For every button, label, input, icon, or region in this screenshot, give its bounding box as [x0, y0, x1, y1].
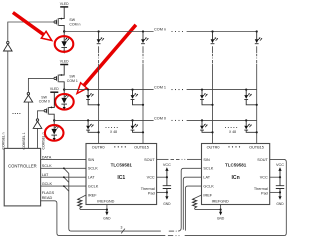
pin IREFGND IC1 stub: [106, 205, 108, 210]
svg-text:X 48: X 48: [229, 130, 236, 134]
wire R2 to IREFGND: [195, 208, 221, 210]
wire COMSEL n input: [7, 51, 9, 148]
resistor R2 (IREF of ICn): [193, 198, 197, 208]
pin labels IC1 left: [88, 158, 99, 198]
wire GCLK to IC1: [41, 185, 86, 187]
wire row COM 0 right segment: [187, 119, 257, 121]
label X 48 right with dotted line: [225, 127, 237, 128]
controller box: [4, 148, 40, 206]
wire ICn SOUT return loop: [185, 159, 287, 235]
power VLED rail 1 bar: [60, 6, 68, 8]
svg-text:OUTB15: OUTB15: [249, 145, 264, 149]
pin labels ICn right: [254, 158, 269, 196]
svg-text:3: 3: [121, 225, 123, 229]
wire IC1 IREF to resistor: [80, 195, 86, 198]
wire IC1 SOUT to ICn SIN (dashed daisy chain): [157, 158, 169, 160]
svg-text:LAT: LAT: [88, 176, 95, 180]
wire row COM 0 left segment: [54, 119, 153, 121]
power VCC column for ICn (arrow, cap C2, gnd): [276, 163, 284, 206]
power VCC column for IC1 (arrow, cap C1, gnd): [163, 163, 171, 206]
svg-text:FLAGS: FLAGS: [42, 191, 55, 195]
svg-text:COMSEL n: COMSEL n: [2, 132, 6, 149]
transistor Q2 SW COM 1 (PMOS): [54, 74, 64, 90]
svg-text:GCLK: GCLK: [42, 182, 53, 186]
svg-text:Pad: Pad: [148, 191, 155, 195]
diode D2 highlighted LED on COM 1: [61, 90, 69, 110]
svg-text:GCLK: GCLK: [203, 185, 214, 189]
diode D1 highlighted LED on COM n: [61, 32, 69, 54]
svg-text:GCLK: GCLK: [88, 185, 99, 189]
wire row COM 1 ellipsis: [171, 89, 183, 90]
wire IC1 VCC pin to decoupling: [157, 176, 167, 178]
ground GND below ICn IREFGND: [217, 210, 225, 221]
wire DATA to SIN: [41, 158, 86, 160]
node IREFGND IC1 junction: [106, 209, 108, 211]
svg-text:IREFGND: IREFGND: [212, 200, 229, 204]
ICn box: [202, 144, 270, 205]
svg-text:COM 0: COM 0: [154, 117, 166, 121]
svg-text:OUTR0: OUTR0: [92, 145, 105, 149]
annotation red circle 3: [45, 125, 64, 141]
wire VLED2 to Q2 source: [59, 65, 64, 75]
svg-text:SIN: SIN: [203, 158, 210, 162]
svg-text:IREF: IREF: [203, 193, 212, 197]
node COM n drain junction: [63, 30, 65, 32]
wire return bus dash-dot gap: [168, 235, 173, 237]
svg-text:Pad: Pad: [261, 191, 268, 195]
svg-text:ICn: ICn: [231, 175, 239, 181]
wire SCLK to IC1: [41, 167, 86, 169]
ground GND below IC1 IREFGND: [103, 210, 111, 221]
wire LAT to IC1: [41, 176, 86, 178]
svg-text:SCLK: SCLK: [42, 164, 52, 168]
wire row COM n right segment: [187, 31, 257, 33]
svg-text:IC1: IC1: [117, 175, 125, 181]
svg-text:VLED: VLED: [60, 59, 69, 63]
svg-text:TLC59581: TLC59581: [111, 162, 133, 167]
svg-text:IREFGND: IREFGND: [97, 200, 114, 204]
wire row COM n ellipsis: [171, 31, 183, 32]
svg-text:DATA: DATA: [42, 155, 52, 159]
svg-text:COMSEL 1: COMSEL 1: [22, 132, 26, 149]
wire U1 output to Q1 gate: [8, 22, 54, 41]
LED matrix row 0 (4 LEDs with jog to column): [86, 119, 100, 133]
power VLED rail 3 bar: [50, 91, 58, 93]
inverter U2 (COMSEL 1 buffer): [24, 93, 33, 103]
wire row COM 0 ellipsis: [171, 120, 183, 121]
svg-text:LAT: LAT: [203, 176, 210, 180]
pin labels ICn left: [203, 158, 214, 198]
wire VLED1 to Q1 source: [59, 8, 64, 19]
svg-text:SCLK: SCLK: [203, 167, 213, 171]
svg-text:X 48: X 48: [110, 130, 117, 134]
wire clock bus dash-dot continuation: [169, 230, 174, 232]
svg-text:TLC59581: TLC59581: [225, 162, 247, 167]
wire row COM 1 right segment: [187, 89, 257, 91]
svg-text:SOUT: SOUT: [257, 158, 268, 162]
wire VLED3 to Q3 source: [49, 93, 54, 108]
column OUTB15 of IC1 (x=143): [143, 46, 144, 143]
wire U3 output to Q3 gate: [38, 111, 45, 119]
svg-text:SIN: SIN: [88, 158, 95, 162]
svg-text:READ: READ: [42, 196, 53, 200]
inverter U3 (COMSEL 0 buffer): [33, 119, 42, 129]
svg-text:VCC: VCC: [260, 176, 268, 180]
wire clock bus rise to ICn SCLK: [178, 168, 201, 231]
bus width marker 3: [121, 229, 125, 234]
svg-text:OUTR0: OUTR0: [207, 145, 220, 149]
pin IREFGND ICn stub: [220, 205, 222, 210]
wire row COM n left segment: [64, 31, 153, 33]
node COM 0 drain junction: [53, 119, 55, 121]
annotation red circle 2: [55, 94, 74, 110]
svg-text:COM n: COM n: [154, 28, 166, 32]
svg-text:IREF: IREF: [88, 193, 97, 197]
inverter U1 (COMSEL n buffer): [4, 41, 13, 51]
wire COMSEL 0 input: [37, 128, 39, 148]
wire SCLK bus tap diagonal: [64, 168, 69, 173]
svg-text:CONTROLLER: CONTROLLER: [8, 164, 37, 169]
svg-text:VLED: VLED: [50, 87, 59, 91]
transistor Q3 SW COM 0 (PMOS): [44, 107, 54, 121]
column OUTR0 of ICn (x=212.5): [212, 46, 213, 143]
diode D3 highlighted LED on COM 0: [51, 120, 59, 141]
annotation red arrow 2: [77, 25, 136, 94]
wire R1 to IREFGND: [80, 208, 107, 210]
column OUTR0 of IC1 (x=98.6): [98, 46, 99, 143]
annotation red arrow 1: [13, 13, 52, 41]
svg-text:VCC: VCC: [147, 176, 155, 180]
svg-text:GND: GND: [163, 202, 171, 206]
annotation red circle 1: [55, 36, 74, 52]
svg-text:LAT: LAT: [42, 173, 49, 177]
svg-text:COM 1: COM 1: [67, 79, 78, 83]
wire row COM 1 left segment: [64, 89, 153, 91]
node ellipsis dots between COMSEL lines: [12, 113, 20, 114]
LED matrix row n (4 LEDs on columns): [97, 30, 104, 43]
wire bus rise to ICn GCLK: [185, 186, 201, 231]
wire bus rise to ICn LAT: [183, 177, 201, 230]
pin labels IC1 right: [141, 158, 156, 196]
power VLED rail 2 bar: [60, 64, 68, 66]
wire ICn thermal pad to gnd: [270, 191, 280, 193]
IC1 box: [86, 144, 157, 205]
pin dots IC1 top: [114, 146, 126, 147]
svg-text:COM n: COM n: [69, 22, 80, 26]
svg-text:COM 1: COM 1: [154, 86, 166, 90]
column OUTB15 of ICn (x=256.7): [256, 46, 257, 143]
resistor R1 (IREF of IC1): [78, 198, 82, 208]
transistor Q1 SW COM n (PMOS): [54, 18, 64, 32]
wire IC1 thermal pad to gnd: [157, 191, 167, 193]
svg-text:SOUT: SOUT: [144, 158, 155, 162]
wire COMSEL 1 input: [27, 102, 29, 148]
label X 48 left with dotted line: [106, 127, 118, 128]
svg-text:OUTB15: OUTB15: [134, 145, 149, 149]
wire LAT bus tap diagonal: [64, 177, 69, 182]
LED matrix row 1 (4 LEDs with jog to column): [86, 89, 100, 106]
svg-text:VCC: VCC: [163, 163, 171, 167]
wire ICn VCC pin to decoupling: [270, 176, 280, 178]
node IREFGND ICn junction: [220, 209, 222, 211]
node COM 1 drain junction: [63, 88, 65, 90]
svg-text:COM 0: COM 0: [39, 99, 50, 103]
svg-text:GND: GND: [103, 217, 111, 221]
wire ICn IREF to resistor: [195, 195, 202, 198]
pin dots ICn top: [228, 146, 240, 147]
svg-text:SCLK: SCLK: [88, 167, 98, 171]
wire clock bus vertical and bottom run: [69, 173, 161, 231]
wire GCLK bus tap diagonal: [64, 186, 69, 191]
wire FLAGS READ down to return bus: [41, 201, 166, 236]
svg-text:VLED: VLED: [60, 2, 69, 6]
wire U2 output to Q2 gate: [28, 78, 54, 92]
